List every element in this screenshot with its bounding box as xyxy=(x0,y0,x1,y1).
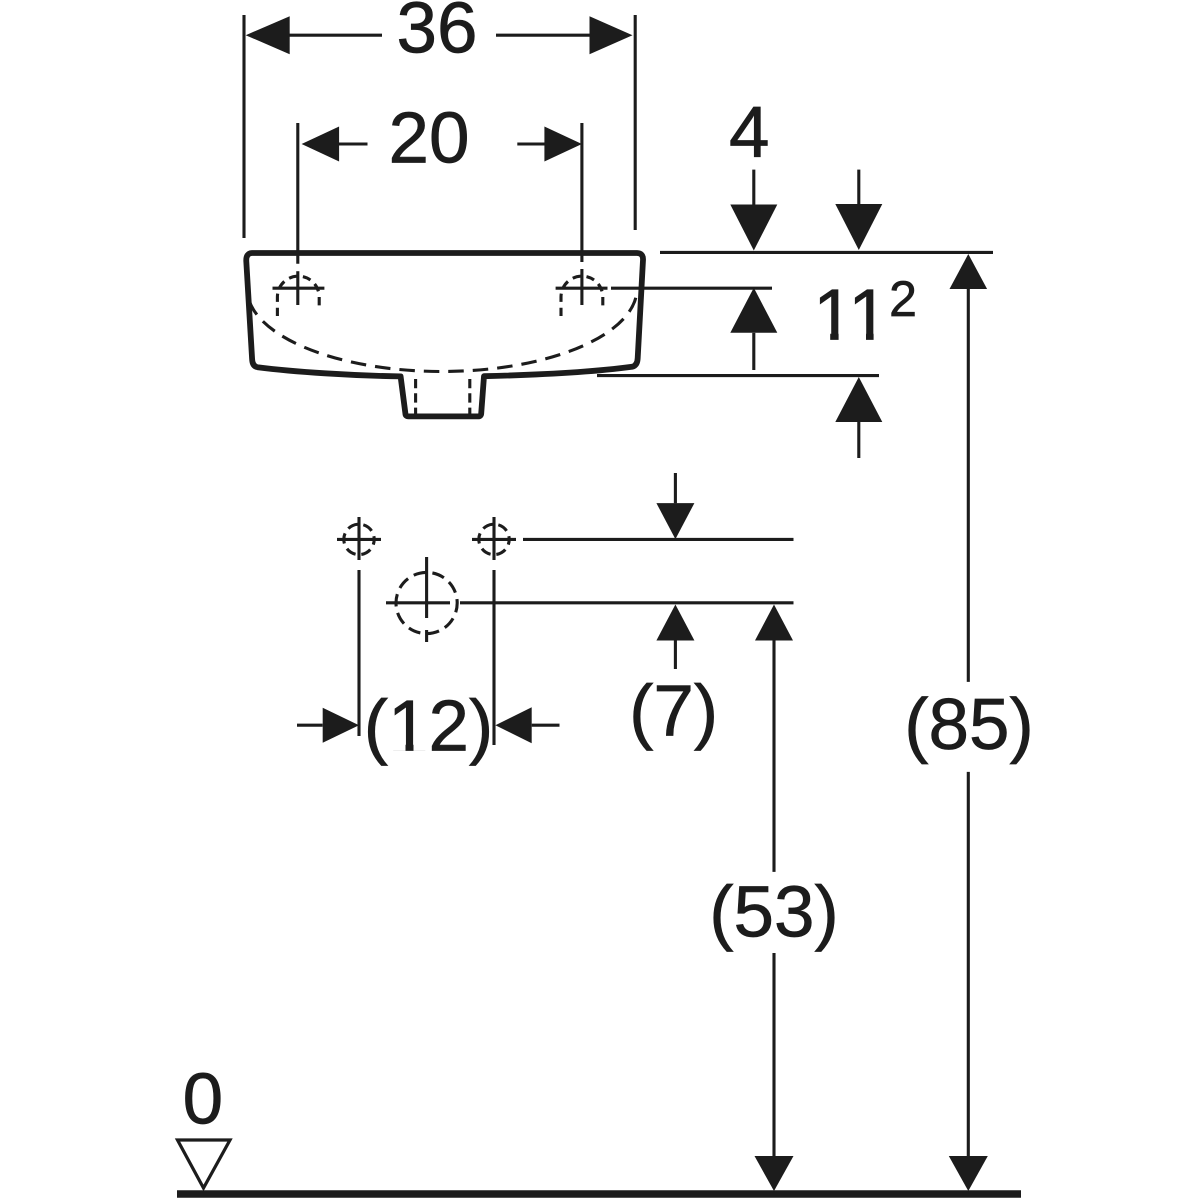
svg-text:(7): (7) xyxy=(629,670,718,751)
svg-text:36: 36 xyxy=(397,0,478,69)
svg-text:(12): (12) xyxy=(364,685,493,766)
svg-text:0: 0 xyxy=(183,1059,224,1140)
svg-text:2: 2 xyxy=(889,271,917,327)
svg-text:(85): (85) xyxy=(904,684,1033,765)
svg-text:(53): (53) xyxy=(709,871,838,952)
svg-text:11: 11 xyxy=(813,275,889,356)
svg-text:4: 4 xyxy=(729,92,770,173)
svg-text:20: 20 xyxy=(389,97,470,178)
